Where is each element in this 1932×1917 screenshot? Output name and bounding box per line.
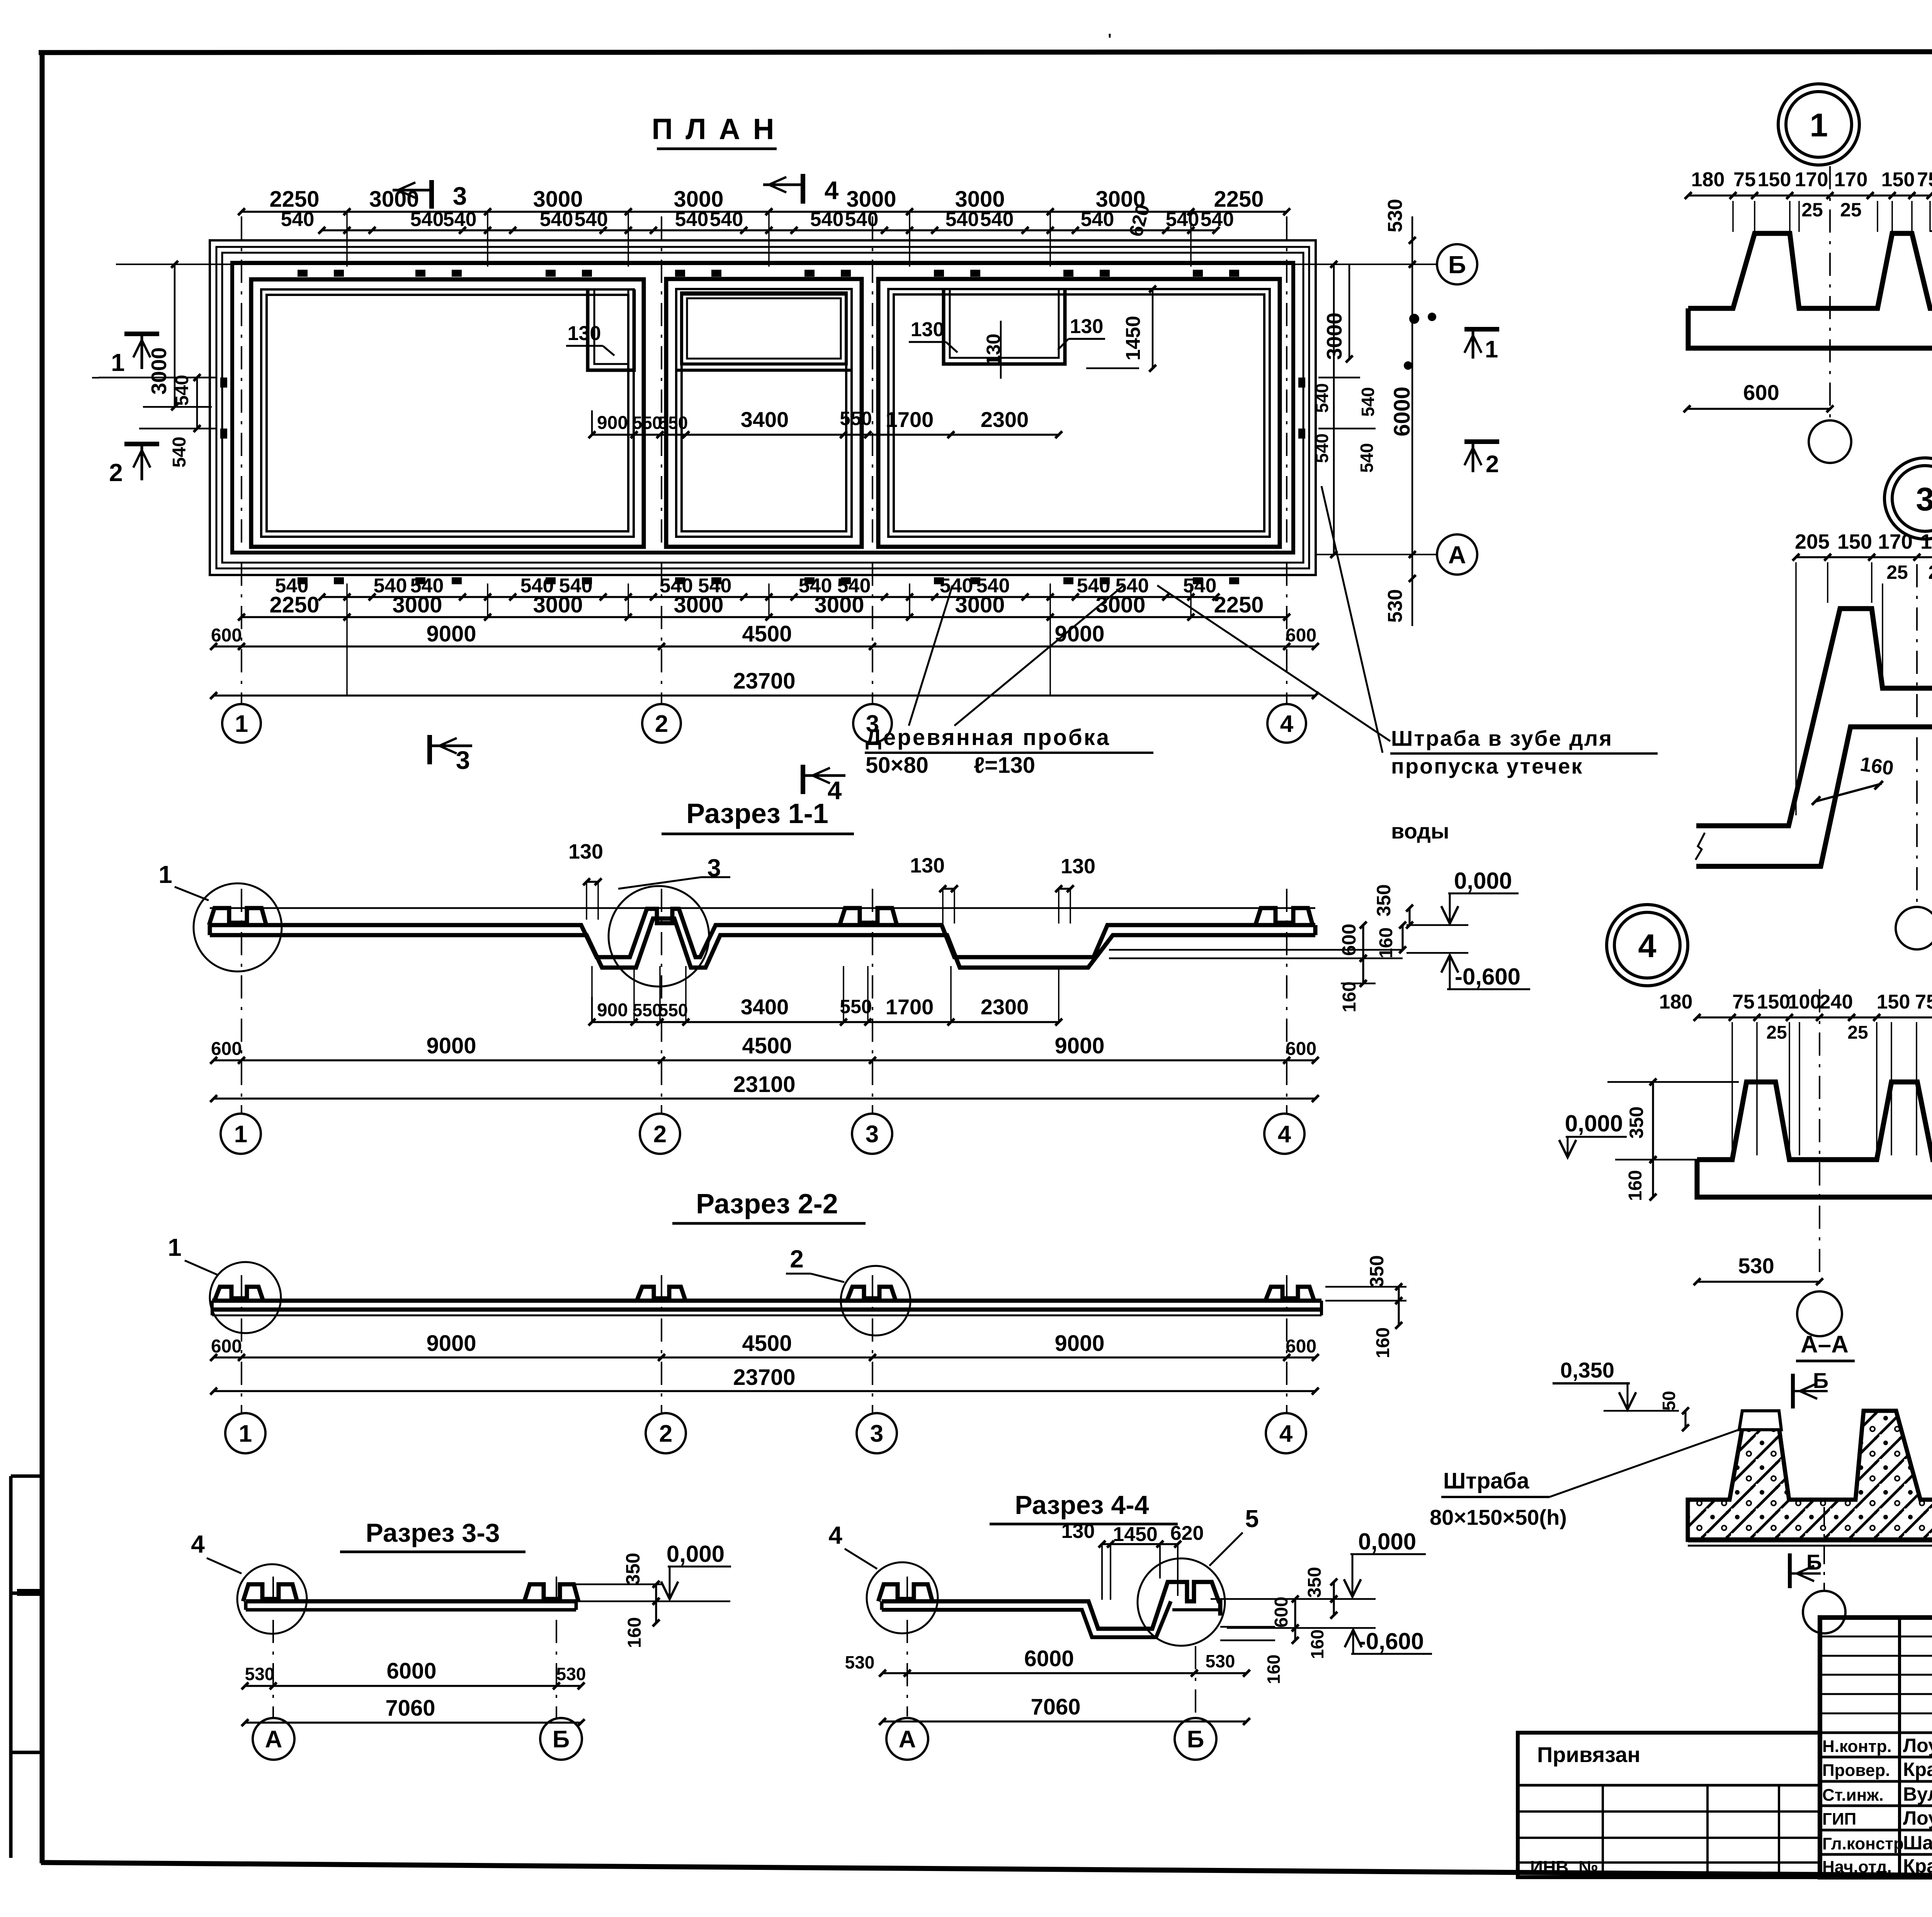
svg-text:Привязан: Привязан	[1537, 1742, 1640, 1767]
svg-text:4: 4	[1280, 711, 1294, 737]
section 4-4 dims 530/6000/530	[883, 1672, 1247, 1674]
section 1-1 teeth at axis 3	[840, 908, 897, 925]
svg-text:-0,600: -0,600	[1455, 964, 1520, 990]
svg-text:530: 530	[1384, 199, 1406, 233]
section 1-1 slab profile	[210, 909, 1315, 957]
svg-text:600: 600	[1743, 380, 1779, 405]
svg-text:160: 160	[1307, 1630, 1327, 1659]
plan interior dim row	[592, 434, 1059, 435]
svg-text:2: 2	[659, 1420, 672, 1447]
A-A concrete section	[1688, 1411, 1932, 1540]
detail 1 dim 600	[1687, 408, 1830, 410]
svg-text:1: 1	[158, 861, 172, 888]
svg-text:130: 130	[910, 854, 945, 877]
section mark 2 left	[124, 442, 159, 446]
detail 1 lower ref circle	[1809, 420, 1851, 463]
detail 1 profile	[1688, 233, 1932, 308]
svg-text:75: 75	[1733, 168, 1756, 191]
svg-text:Б: Б	[1813, 1368, 1828, 1393]
svg-text:А–А: А–А	[1801, 1331, 1849, 1358]
detail 4 lower ref circle	[1797, 1291, 1842, 1336]
svg-text:2: 2	[790, 1245, 804, 1273]
svg-text:530: 530	[845, 1652, 875, 1672]
svg-text:180: 180	[1691, 168, 1725, 191]
svg-text:540: 540	[710, 208, 743, 231]
svg-text:540: 540	[540, 208, 573, 231]
svg-text:0,000: 0,000	[667, 1541, 724, 1567]
section 2-2 slab	[212, 1299, 1321, 1303]
A-A Б flag bottom	[1788, 1553, 1792, 1588]
svg-text:600: 600	[211, 625, 242, 646]
svg-text:Б: Б	[1187, 1726, 1204, 1753]
svg-text:25: 25	[1766, 1022, 1787, 1043]
svg-text:150: 150	[1837, 530, 1872, 553]
plan left dim 3000 + section marks	[174, 264, 176, 407]
title block central grid	[1820, 1618, 1932, 1877]
svg-text:3000: 3000	[955, 592, 1005, 617]
plan axis circle 2	[642, 704, 681, 743]
section 4-4 slab profile	[882, 1582, 1220, 1629]
svg-text:550: 550	[840, 996, 872, 1017]
svg-text:350: 350	[622, 1553, 644, 1585]
svg-text:2250: 2250	[269, 592, 319, 617]
svg-text:4: 4	[828, 1521, 842, 1549]
svg-text:160: 160	[1625, 1170, 1646, 1201]
svg-text:160: 160	[1339, 981, 1360, 1012]
svg-text:1: 1	[1810, 107, 1828, 144]
svg-text:3: 3	[1916, 481, 1932, 518]
svg-text:350: 350	[1366, 1255, 1388, 1287]
svg-text:900: 900	[597, 1000, 628, 1021]
svg-text:350: 350	[1626, 1106, 1647, 1138]
svg-text:0,000: 0,000	[1454, 868, 1512, 894]
svg-text:540: 540	[443, 208, 477, 231]
section 3-3 teeth at Б	[524, 1584, 578, 1601]
chamber 2 top partition	[682, 293, 846, 364]
section 2-2 axis lines & circles	[241, 1275, 242, 1412]
svg-text:540: 540	[169, 437, 190, 468]
section 1-1 detail circle left	[194, 883, 282, 971]
svg-text:-0,600: -0,600	[1358, 1628, 1424, 1654]
chamber 1 corner notch	[588, 289, 634, 370]
svg-text:170: 170	[1795, 168, 1828, 191]
plan axis circle 1	[222, 704, 261, 743]
svg-text:550: 550	[633, 1000, 662, 1020]
svg-text:9000: 9000	[426, 1033, 476, 1058]
svg-text:180: 180	[1659, 991, 1693, 1013]
section 2-2 detail circle axis1	[210, 1262, 281, 1333]
svg-text:3: 3	[866, 1121, 879, 1148]
plan top dim row 2250/3000...	[241, 211, 1287, 213]
section 4-4 dim 7060	[883, 1720, 1247, 1722]
svg-text:9000: 9000	[1054, 1033, 1104, 1058]
section 4-4 lower lines right	[1220, 1626, 1275, 1628]
section flag 4 bottom	[801, 765, 805, 794]
plan axis circle 4	[1267, 704, 1306, 743]
svg-text:540: 540	[1312, 434, 1332, 463]
svg-text:0,000: 0,000	[1358, 1529, 1416, 1555]
svg-text:600: 600	[1338, 924, 1360, 956]
svg-text:2250: 2250	[1214, 592, 1264, 617]
svg-text:Штраба в зубе для: Штраба в зубе для	[1391, 726, 1613, 750]
svg-text:150: 150	[1758, 168, 1791, 191]
svg-text:50×80: 50×80	[866, 753, 929, 778]
title block left box Привязан	[1518, 1733, 1820, 1877]
svg-text:3000: 3000	[814, 592, 864, 617]
plan top dim row 540	[322, 229, 1216, 231]
svg-text:205: 205	[1795, 530, 1830, 553]
svg-text:6000: 6000	[1024, 1646, 1074, 1671]
svg-text:': '	[1108, 31, 1112, 48]
svg-text:Штраба: Штраба	[1443, 1468, 1529, 1493]
plan axis lines 1-4	[241, 216, 242, 704]
svg-text:Лоуцкер: Лоуцкер	[1903, 1807, 1932, 1829]
svg-text:А: А	[265, 1726, 282, 1753]
svg-text:25: 25	[1886, 561, 1908, 583]
section flag 3 top	[429, 180, 434, 209]
section 1-1 left teeth pair	[209, 908, 266, 925]
svg-text:7060: 7060	[385, 1696, 435, 1721]
svg-text:4500: 4500	[742, 1033, 792, 1058]
detail 3 lower ref circle	[1896, 907, 1932, 949]
svg-text:600: 600	[1286, 1039, 1316, 1059]
svg-text:540: 540	[845, 208, 879, 231]
plan chamber 3 (right 9000)	[878, 279, 1280, 547]
svg-text:540: 540	[1357, 443, 1377, 473]
svg-text:550: 550	[658, 1000, 688, 1020]
svg-text:Б: Б	[1806, 1550, 1822, 1574]
svg-text:3: 3	[870, 1420, 883, 1447]
svg-text:25: 25	[1840, 199, 1862, 221]
svg-text:1: 1	[234, 1121, 247, 1148]
svg-text:3000: 3000	[147, 347, 171, 395]
svg-text:540: 540	[1201, 208, 1234, 231]
section 2-2 teeth axis2	[637, 1287, 685, 1301]
section mark 1 left	[124, 332, 159, 336]
svg-text:550: 550	[633, 413, 662, 433]
svg-text:4500: 4500	[742, 621, 792, 646]
svg-text:350: 350	[1304, 1567, 1325, 1598]
detail 4 axis	[1819, 989, 1820, 1291]
section 1-1 recess lines right	[1109, 949, 1403, 951]
axis А line + circle	[1315, 554, 1437, 555]
svg-text:2300: 2300	[981, 995, 1029, 1019]
svg-text:Разрез 3-3: Разрез 3-3	[366, 1518, 500, 1548]
svg-text:600: 600	[211, 1039, 242, 1059]
svg-text:130: 130	[1061, 855, 1095, 878]
svg-text:1: 1	[1485, 336, 1498, 363]
svg-text:540: 540	[575, 208, 608, 231]
svg-text:1: 1	[168, 1233, 182, 1261]
detail 1 right dims 350/160	[1930, 230, 1932, 232]
section 3-3 axis circles	[272, 1577, 274, 1718]
svg-text:25: 25	[1801, 199, 1823, 221]
plan bottom 540 row	[322, 596, 1216, 598]
svg-text:Лоуцкер: Лоуцкер	[1903, 1735, 1932, 1756]
svg-text:Деревянная пробка: Деревянная пробка	[866, 725, 1111, 750]
left margin strip	[9, 1476, 13, 1858]
svg-text:160: 160	[624, 1617, 645, 1648]
svg-text:9000: 9000	[1054, 621, 1104, 646]
svg-text:6000: 6000	[386, 1658, 436, 1684]
svg-text:600: 600	[1286, 625, 1316, 646]
svg-text:4: 4	[1638, 928, 1656, 964]
svg-text:130: 130	[911, 318, 944, 341]
svg-text:Вульф: Вульф	[1903, 1783, 1932, 1805]
svg-text:130: 130	[568, 840, 603, 863]
section 4-4 detail circle at Б	[1138, 1558, 1225, 1646]
svg-text:2: 2	[655, 711, 668, 737]
svg-text:170: 170	[1834, 168, 1868, 191]
svg-text:А: А	[1448, 541, 1466, 569]
svg-text:540: 540	[810, 208, 844, 231]
svg-text:240: 240	[1820, 991, 1853, 1013]
svg-text:Н.контр.: Н.контр.	[1822, 1737, 1892, 1756]
A-A axis + circle	[1823, 1507, 1825, 1591]
svg-text:3000: 3000	[533, 592, 583, 617]
svg-text:600: 600	[211, 1336, 242, 1357]
svg-text:160: 160	[1859, 753, 1895, 780]
section 2-2 detail circle axis3	[841, 1266, 910, 1335]
svg-text:ℓ=130: ℓ=130	[974, 753, 1035, 778]
svg-text:Краснова: Краснова	[1903, 1759, 1932, 1780]
svg-text:540: 540	[1358, 387, 1378, 417]
section 2-2 dim row 600/9000/4500/9000/600	[214, 1356, 1315, 1358]
svg-text:150: 150	[1881, 168, 1915, 191]
detail 4 dim 530	[1697, 1281, 1820, 1283]
svg-text:9000: 9000	[426, 621, 476, 646]
svg-text:530: 530	[1384, 589, 1406, 623]
svg-text:540: 540	[172, 375, 192, 406]
svg-text:130: 130	[568, 322, 601, 345]
svg-text:530: 530	[1206, 1651, 1235, 1671]
svg-text:2: 2	[1486, 451, 1499, 478]
svg-text:Разрез 4-4: Разрез 4-4	[1015, 1490, 1149, 1520]
svg-text:4: 4	[191, 1530, 205, 1558]
svg-text:3400: 3400	[741, 407, 789, 432]
detail 3 ref circle	[1884, 458, 1932, 539]
section 3-3 dim 7060	[245, 1721, 581, 1723]
svg-text:Разрез 1-1: Разрез 1-1	[686, 798, 828, 829]
svg-text:9000: 9000	[1054, 1331, 1104, 1356]
svg-text:160: 160	[1264, 1655, 1284, 1684]
svg-text:540: 540	[1183, 575, 1217, 597]
svg-text:23700: 23700	[733, 1365, 795, 1390]
svg-text:25: 25	[1928, 561, 1932, 583]
detail 4 dim row	[1697, 1016, 1932, 1018]
svg-text:25: 25	[1847, 1022, 1868, 1043]
section 1-1 detail circle middle	[609, 886, 709, 987]
svg-text:Красавин: Красавин	[1903, 1855, 1932, 1877]
svg-text:620: 620	[1170, 1522, 1204, 1544]
section 4-4 detail circle at A	[867, 1562, 938, 1633]
svg-text:1: 1	[111, 349, 125, 376]
svg-text:540: 540	[410, 208, 444, 231]
svg-text:3000: 3000	[673, 592, 723, 617]
plan bottom dim row 23700	[214, 694, 1315, 696]
detail 4 left dims	[1607, 1081, 1739, 1083]
svg-text:П Л А Н: П Л А Н	[651, 113, 776, 146]
section 1-1 top thin line	[210, 907, 1315, 909]
section 1-1 dim row 600/9000/4500/9000/600	[214, 1059, 1315, 1061]
svg-text:540: 540	[946, 208, 979, 231]
svg-text:1450: 1450	[1113, 1523, 1158, 1546]
detail 1 ref circle	[1778, 84, 1859, 165]
ink dots right of plan	[1409, 314, 1419, 324]
svg-text:0,350: 0,350	[1560, 1358, 1614, 1382]
plan bottom dim row 2250/3000...	[241, 616, 1287, 618]
section 1-1 axis lines & circles	[241, 889, 242, 1113]
svg-text:540: 540	[675, 208, 709, 231]
svg-text:540: 540	[1166, 208, 1199, 231]
svg-text:ИНВ. №: ИНВ. №	[1530, 1857, 1598, 1877]
svg-text:Шапиро: Шапиро	[1903, 1832, 1932, 1854]
section 2-2 dim 23700	[214, 1390, 1315, 1392]
svg-text:600: 600	[1286, 1336, 1316, 1357]
section 4-4 axis circles	[906, 1577, 908, 1716]
svg-text:75: 75	[1917, 168, 1932, 191]
svg-text:80×150×50(h): 80×150×50(h)	[1430, 1505, 1567, 1529]
section 3-3 slab	[246, 1599, 576, 1604]
axis Б line + circle	[116, 264, 1437, 265]
chamber 3 top notch	[944, 289, 1065, 364]
section 2-2 teeth axis4	[1265, 1287, 1314, 1301]
svg-text:Разрез 2-2: Разрез 2-2	[696, 1189, 838, 1220]
svg-text:2300: 2300	[981, 407, 1029, 432]
svg-text:А: А	[899, 1726, 916, 1753]
svg-text:7060: 7060	[1031, 1694, 1080, 1720]
svg-text:Б: Б	[1448, 251, 1466, 279]
svg-text:1: 1	[239, 1420, 252, 1447]
svg-text:75: 75	[1915, 991, 1932, 1013]
section 2-2 teeth axis3	[847, 1287, 896, 1301]
svg-text:пропуска утечек: пропуска утечек	[1391, 754, 1583, 778]
svg-text:4500: 4500	[742, 1331, 792, 1356]
svg-text:160: 160	[1376, 927, 1396, 958]
svg-text:3: 3	[453, 182, 467, 210]
detail 3 outer profile	[1696, 609, 1932, 826]
svg-text:1700: 1700	[886, 407, 934, 432]
plan outer wall outline	[210, 240, 1316, 575]
svg-text:3000: 3000	[392, 592, 442, 617]
detail 1 axis	[1829, 166, 1831, 419]
svg-text:Нач.отд.: Нач.отд.	[1822, 1857, 1892, 1876]
svg-text:530: 530	[1738, 1254, 1774, 1278]
plan chamber 1 (left 9000)	[251, 279, 644, 547]
detail 3 dim row	[1796, 556, 1932, 558]
section 1-1 interior dim row	[592, 1021, 1059, 1023]
svg-text:540: 540	[281, 208, 315, 231]
section 1-1 teeth at axis 4	[1255, 908, 1313, 925]
detail 1 dim row	[1688, 194, 1930, 196]
svg-text:Б: Б	[553, 1726, 570, 1753]
svg-text:2: 2	[653, 1121, 667, 1148]
svg-text:9000: 9000	[426, 1331, 476, 1356]
section mark 2 right	[1464, 439, 1499, 444]
svg-text:воды: воды	[1391, 819, 1449, 843]
svg-text:540: 540	[1081, 208, 1114, 231]
section 4-4 top dims 130/1450/620	[1102, 1543, 1178, 1545]
svg-text:0,000: 0,000	[1565, 1111, 1623, 1136]
svg-text:4: 4	[828, 776, 842, 805]
svg-text:6000: 6000	[1389, 386, 1415, 436]
plan dim extension lines bottom	[346, 583, 348, 617]
section 3-3 dims 530/6000/530	[245, 1685, 581, 1687]
svg-text:Провер.: Провер.	[1822, 1761, 1890, 1780]
svg-text:350: 350	[1373, 884, 1395, 916]
section 1-1 dim 23100	[214, 1097, 1315, 1099]
svg-text:3400: 3400	[741, 995, 789, 1019]
svg-text:1700: 1700	[886, 995, 934, 1019]
svg-text:530: 530	[245, 1664, 275, 1684]
section 2-2 teeth axis1	[214, 1287, 263, 1301]
svg-text:600: 600	[1271, 1597, 1292, 1628]
svg-text:4: 4	[1279, 1420, 1293, 1447]
leader lines Штраба в зубе	[1321, 486, 1383, 753]
svg-text:900: 900	[597, 413, 628, 433]
svg-text:160: 160	[1373, 1327, 1393, 1358]
svg-text:Ст.инж.: Ст.инж.	[1822, 1786, 1884, 1805]
svg-text:150: 150	[1877, 991, 1910, 1013]
section flag 3 bottom	[427, 735, 432, 764]
plan chamber 2 (middle 4500)	[666, 279, 862, 547]
svg-text:170: 170	[1920, 530, 1932, 553]
section 3-3 teeth at A	[243, 1584, 297, 1601]
svg-text:3000: 3000	[1322, 313, 1346, 360]
svg-text:1450: 1450	[1122, 316, 1145, 361]
svg-text:550: 550	[840, 408, 872, 429]
section flag 4 top	[801, 174, 805, 204]
leader lines Деревянная пробка	[909, 585, 952, 726]
svg-text:75: 75	[1732, 991, 1755, 1013]
svg-text:150: 150	[1757, 991, 1791, 1013]
svg-text:3000: 3000	[1095, 592, 1145, 617]
plan dim extension lines top	[346, 212, 348, 267]
wooden plug marks side walls	[220, 378, 227, 388]
svg-text:130: 130	[1070, 315, 1104, 338]
A-A Б flag top	[1791, 1374, 1795, 1408]
svg-text:4: 4	[1278, 1121, 1291, 1148]
section 3-3 detail circle	[237, 1564, 307, 1634]
svg-text:550: 550	[658, 413, 688, 433]
section 4-4 teeth at A	[878, 1584, 932, 1601]
wooden plug marks bottom wall	[298, 577, 308, 584]
svg-text:Гл.констр: Гл.констр	[1822, 1834, 1904, 1853]
svg-text:540: 540	[1312, 383, 1332, 413]
svg-text:2: 2	[109, 459, 123, 486]
detail 3 axis	[1916, 564, 1918, 906]
plan bottom dim row 600/9000/4500/9000/600	[214, 645, 1315, 647]
svg-text:3: 3	[456, 746, 470, 774]
svg-text:4: 4	[825, 176, 839, 204]
svg-text:5: 5	[1245, 1505, 1259, 1533]
svg-text:170: 170	[1878, 530, 1913, 553]
detail 4 profile	[1697, 1082, 1932, 1160]
svg-text:1: 1	[235, 711, 248, 737]
svg-text:100: 100	[1788, 991, 1821, 1013]
svg-text:130: 130	[1061, 1520, 1095, 1543]
detail 4 ref circle	[1607, 905, 1688, 986]
svg-text:23100: 23100	[733, 1072, 795, 1097]
plan axis circle 3	[853, 704, 892, 743]
svg-text:530: 530	[556, 1664, 586, 1684]
svg-text:23700: 23700	[733, 668, 795, 694]
svg-text:ГИП: ГИП	[1822, 1810, 1856, 1829]
svg-text:540: 540	[980, 208, 1014, 231]
svg-text:50: 50	[1659, 1391, 1679, 1410]
plan right dims 530/3000/6000	[1333, 264, 1335, 555]
wooden plug marks top wall	[298, 270, 308, 277]
